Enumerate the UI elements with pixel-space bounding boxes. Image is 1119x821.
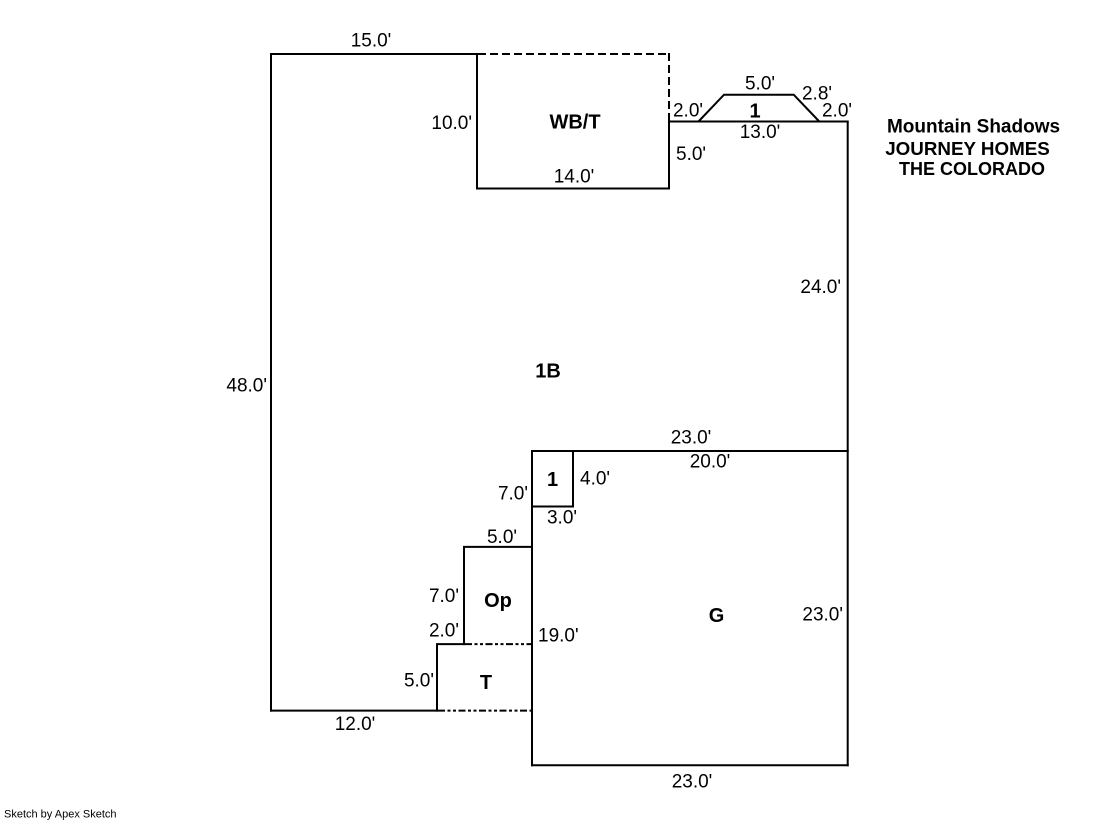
wire WB/T right lower 5.0 — [668, 122, 670, 190]
svg-text:20.0': 20.0' — [690, 451, 731, 472]
svg-text:13.0': 13.0' — [740, 122, 781, 143]
wire T left wall 5.0 — [436, 644, 438, 712]
svg-text:THE COLORADO: THE COLORADO — [899, 159, 1045, 179]
svg-text:2.0': 2.0' — [429, 620, 459, 641]
wire trapezoid bay 1 — [699, 95, 820, 122]
svg-text:24.0': 24.0' — [800, 277, 841, 298]
svg-text:Sketch by Apex Sketch: Sketch by Apex Sketch — [4, 809, 117, 821]
svg-text:3.0': 3.0' — [547, 508, 577, 529]
wire WB/T left wall — [476, 53, 478, 190]
svg-text:23.0': 23.0' — [672, 771, 713, 792]
wire T bottom dash-dot — [438, 710, 532, 712]
wire garage right wall 23.0 — [847, 451, 849, 766]
svg-text:5.0': 5.0' — [745, 74, 775, 95]
wire WB/T bottom 14.0 — [476, 188, 670, 190]
svg-text:JOURNEY HOMES: JOURNEY HOMES — [885, 138, 1050, 159]
svg-text:4.0': 4.0' — [580, 468, 610, 489]
wire top edge 15.0 — [270, 53, 478, 55]
svg-text:15.0': 15.0' — [351, 31, 392, 52]
svg-text:5.0': 5.0' — [404, 670, 434, 691]
svg-text:1B: 1B — [535, 361, 561, 383]
wire right wall 24.0 — [847, 122, 849, 452]
wire garage left wall — [531, 451, 533, 766]
wire top-right wall 13.0 — [668, 121, 849, 123]
svg-text:Op: Op — [484, 590, 512, 612]
svg-text:Mountain Shadows: Mountain Shadows — [887, 116, 1060, 137]
svg-text:23.0': 23.0' — [671, 428, 712, 449]
node box 1 bottom — [531, 506, 574, 508]
wire Op bottom dash-dot — [465, 643, 532, 645]
wire 1B bottom 5.0 — [463, 546, 532, 548]
node box 1 right — [572, 451, 574, 507]
wire Op left wall 7.0 — [463, 547, 465, 645]
svg-text:1: 1 — [749, 100, 760, 122]
svg-text:1: 1 — [547, 469, 558, 491]
svg-text:7.0': 7.0' — [498, 484, 528, 505]
svg-text:5.0': 5.0' — [676, 144, 706, 165]
wire WB/T top dashed — [478, 53, 669, 55]
svg-text:T: T — [480, 672, 492, 694]
svg-text:10.0': 10.0' — [431, 113, 472, 134]
wire garage bottom 23.0 — [531, 764, 849, 766]
svg-text:2.0': 2.0' — [822, 100, 852, 121]
svg-text:48.0': 48.0' — [226, 376, 267, 397]
svg-text:14.0': 14.0' — [554, 167, 595, 188]
svg-text:WB/T: WB/T — [549, 112, 600, 134]
svg-text:7.0': 7.0' — [429, 586, 459, 607]
wire garage top 23.0 — [531, 450, 849, 452]
svg-text:12.0': 12.0' — [335, 714, 376, 735]
wire left wall 48.0 — [270, 53, 272, 712]
wire step 2.0 — [436, 643, 465, 645]
svg-text:23.0': 23.0' — [802, 604, 843, 625]
svg-text:5.0': 5.0' — [487, 527, 517, 548]
svg-text:G: G — [709, 605, 725, 627]
wire WB/T right dashed — [668, 53, 670, 122]
svg-text:2.0': 2.0' — [673, 100, 703, 121]
svg-text:19.0': 19.0' — [538, 626, 579, 647]
wire bottom edge 12.0 — [270, 710, 438, 712]
